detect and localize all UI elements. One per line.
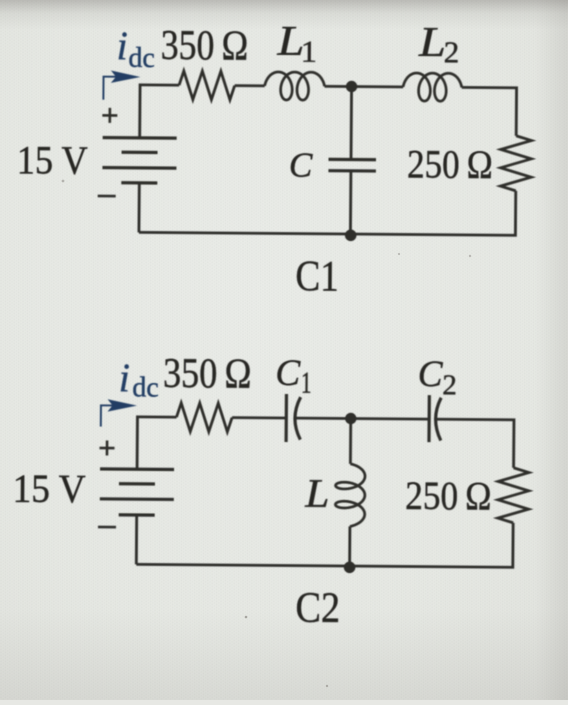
wire: R1 to L1 [235,84,265,87]
wire: node A branch down to capacitor C [350,87,353,160]
wire: L2 to top-right corner down to R2 [461,87,516,135]
wire: R4 down to bottom wire of C2 [136,520,513,567]
svg-text:250 Ω: 250 Ω [405,474,492,519]
svg-text:L: L [418,19,446,66]
inductor L1 [265,72,325,100]
svg-text:C1: C1 [295,252,339,300]
svg-text:L: L [304,472,329,516]
current arrow i_dc guide line (top circuit) [103,77,124,100]
svg-text:1: 1 [301,365,312,400]
wire: battery B2 bottom lead [135,515,138,564]
svg-text:i: i [116,23,127,68]
capacitor C1 flat plate (series, bottom circuit) [284,394,288,442]
current arrow i_dc head (top circuit) [111,71,140,84]
svg-text:C: C [275,353,301,394]
wire: C1 top-left from battery to resistor R1 [140,85,179,138]
wire: battery bottom lead (top circuit) [138,183,141,232]
wire: node C branch down to inductor L [349,419,352,464]
minus sign of source B2 [98,526,116,529]
svg-text:15 V: 15 V [13,468,86,512]
minus sign of source B1 [98,195,116,198]
svg-text:C2: C2 [295,584,340,632]
capacitor C plates (top circuit) [328,159,376,171]
svg-text:dc: dc [132,372,159,403]
svg-text:C: C [418,354,444,395]
inductor L2 [403,73,462,101]
svg-text:1: 1 [301,34,318,68]
plus sign of source B1 [102,108,117,123]
resistor R3 350ohm (bottom circuit) [176,403,232,432]
current arrow i_dc head (bottom circuit) [108,399,137,412]
wire: R2 to bottom-right corner and bottom wire [139,188,516,235]
svg-text:350 Ω: 350 Ω [161,22,249,69]
capacitor C2 curved plate [435,398,441,441]
svg-text:dc: dc [128,43,155,74]
wire: L1 to node A and on to L2 [325,85,403,88]
svg-text:C: C [289,146,313,185]
wire: C2 top-left from battery to resistor R3 [137,417,176,470]
node A (top middle junction, C1) [346,81,357,92]
wire: C1 to node C and on to capacitor C2 [295,418,429,419]
current arrow i_dc guide line (bottom circuit) [101,405,121,426]
wire: capacitor C to bottom node B [349,171,352,234]
svg-text:250 Ω: 250 Ω [407,143,493,188]
capacitor C1 curved plate [295,397,301,440]
svg-text:350 Ω: 350 Ω [163,350,252,397]
resistor R4 250ohm (bottom circuit, right) [498,468,529,523]
battery B2 15V plates [100,469,174,515]
capacitor C2 flat plate (series, bottom circuit) [427,395,431,442]
svg-text:i: i [119,355,130,400]
resistor R2 250ohm (top circuit, right) [500,136,531,191]
plus sign of source B2 [99,440,114,455]
svg-text:2: 2 [442,369,457,401]
wire: inductor L to bottom node D [348,526,351,566]
resistor R1 350ohm (top circuit) [179,71,235,100]
wire: C2 to top-right corner down to R4 [437,419,514,468]
battery B1 15V plates [102,138,176,184]
svg-text:15 V: 15 V [17,139,88,184]
svg-text:2: 2 [444,34,460,69]
node B (bottom middle junction, C1) [345,229,357,241]
node C (top middle junction, C2) [345,413,356,424]
node D (bottom middle junction, C2) [344,561,356,573]
inductor L (vertical, bottom circuit) [335,464,365,527]
wire: R3 to capacitor C1 [232,416,286,419]
